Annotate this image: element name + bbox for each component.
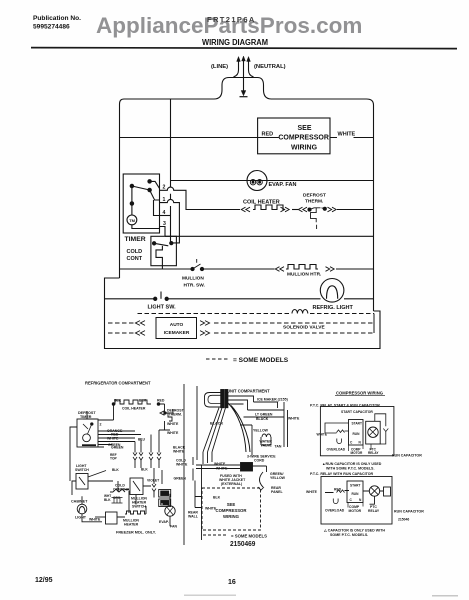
svg-text:YELLOW: YELLOW xyxy=(270,476,286,480)
svg-text:(EXTERNAL): (EXTERNAL) xyxy=(221,482,242,486)
svg-text:ICE MAKER (2155): ICE MAKER (2155) xyxy=(257,398,288,402)
svg-text:COIL HEATER: COIL HEATER xyxy=(122,407,146,411)
svg-text:SWITCH: SWITCH xyxy=(132,505,146,509)
svg-text:5995274486: 5995274486 xyxy=(33,24,70,31)
svg-text:VIOLET: VIOLET xyxy=(147,479,160,483)
svg-text:1: 1 xyxy=(161,486,163,490)
svg-text:SWITCH: SWITCH xyxy=(75,468,89,472)
svg-text:WITH SOME P.T.C. MODELS.: WITH SOME P.T.C. MODELS. xyxy=(326,466,374,470)
svg-text:COIL HEATER: COIL HEATER xyxy=(243,200,280,206)
svg-text:2150469: 2150469 xyxy=(230,539,255,548)
svg-text:RUN: RUN xyxy=(352,492,360,496)
svg-text:WHITE: WHITE xyxy=(205,507,217,511)
svg-text:OVERLOAD: OVERLOAD xyxy=(325,509,345,513)
svg-text:BLACK: BLACK xyxy=(256,417,269,421)
svg-text:RUN: RUN xyxy=(353,432,361,436)
svg-text:Publication No.: Publication No. xyxy=(33,15,81,22)
svg-text:N: N xyxy=(359,498,362,502)
svg-text:C: C xyxy=(350,498,353,502)
svg-text:RUN CAPACITOR: RUN CAPACITOR xyxy=(394,510,424,514)
svg-text:BLK: BLK xyxy=(141,468,148,472)
svg-text:WALL: WALL xyxy=(188,515,199,519)
svg-text:HEATER: HEATER xyxy=(124,523,139,527)
svg-text:(LINE): (LINE) xyxy=(211,64,228,70)
svg-text:CONTROL: CONTROL xyxy=(113,488,131,492)
svg-text:215046: 215046 xyxy=(398,518,409,522)
svg-text:START CAPACITOR: START CAPACITOR xyxy=(341,410,373,414)
svg-text:C: C xyxy=(350,441,353,445)
svg-text:COMPRESSOR WIRING: COMPRESSOR WIRING xyxy=(336,391,383,396)
svg-text:1: 1 xyxy=(163,197,166,203)
svg-text:WHITE: WHITE xyxy=(173,450,185,454)
svg-text:FREEZER MDL. ONLY.: FREEZER MDL. ONLY. xyxy=(116,531,156,535)
svg-text:START: START xyxy=(352,422,362,426)
svg-text:WHITE: WHITE xyxy=(167,431,179,435)
svg-text:N: N xyxy=(359,441,362,445)
svg-text:RED: RED xyxy=(334,488,342,492)
svg-text:SEE: SEE xyxy=(227,502,236,507)
svg-text:WIRING: WIRING xyxy=(223,514,240,519)
svg-text:CONT: CONT xyxy=(127,256,143,262)
svg-text:LIGHT: LIGHT xyxy=(75,516,87,520)
svg-text:SOME P.T.C. MODELS.: SOME P.T.C. MODELS. xyxy=(330,533,368,537)
svg-text:THERM.: THERM. xyxy=(305,199,323,205)
svg-text:SEE: SEE xyxy=(297,125,311,132)
svg-text:TAN: TAN xyxy=(275,445,282,449)
svg-text:FAN: FAN xyxy=(170,525,177,529)
svg-text:CORD: CORD xyxy=(254,459,265,463)
svg-text:THERM.: THERM. xyxy=(169,413,182,417)
svg-text:COMPRESSOR: COMPRESSOR xyxy=(215,508,247,513)
svg-text:= SOME MODELS: = SOME MODELS xyxy=(231,534,267,539)
svg-text:= SOME MODELS: = SOME MODELS xyxy=(233,357,289,364)
svg-text:WIRING: WIRING xyxy=(291,145,318,152)
svg-text:▲RUN CAPACITOR IS ONLY USED: ▲RUN CAPACITOR IS ONLY USED xyxy=(322,462,382,466)
svg-text:2: 2 xyxy=(163,185,166,191)
svg-text:△ CAPACITOR IS ONLY USED WITH: △ CAPACITOR IS ONLY USED WITH xyxy=(323,529,385,533)
svg-text:EVAP.: EVAP. xyxy=(159,520,169,524)
svg-text:HTR. SW.: HTR. SW. xyxy=(184,283,205,289)
svg-text:MOTOR: MOTOR xyxy=(351,451,364,455)
svg-text:TIMER: TIMER xyxy=(80,415,92,419)
svg-text:3: 3 xyxy=(163,221,166,227)
svg-text:ORG: ORG xyxy=(113,496,121,500)
svg-text:P.T.C. RELAY WITH RUN CAPACITO: P.T.C. RELAY WITH RUN CAPACITOR xyxy=(310,472,373,476)
svg-text:P.T.C. RELAY, START & RUN CAPA: P.T.C. RELAY, START & RUN CAPACITOR xyxy=(310,404,380,408)
svg-text:CABINET: CABINET xyxy=(71,500,88,504)
svg-text:RUN CAPACITOR: RUN CAPACITOR xyxy=(392,454,422,458)
svg-text:16: 16 xyxy=(228,579,236,586)
svg-text:WHITE: WHITE xyxy=(338,131,356,137)
svg-text:WHITE: WHITE xyxy=(167,422,179,426)
svg-text:REFRIGERATOR COMPARTMENT: REFRIGERATOR COMPARTMENT xyxy=(85,381,151,386)
svg-text:TIMER: TIMER xyxy=(125,236,146,243)
svg-text:MOTOR: MOTOR xyxy=(349,509,362,513)
svg-text:TM: TM xyxy=(129,218,135,223)
svg-text:FRT21P6A: FRT21P6A xyxy=(207,15,256,24)
svg-text:RELAY: RELAY xyxy=(368,451,379,455)
svg-text:TOP: TOP xyxy=(110,457,118,461)
svg-text:2: 2 xyxy=(100,423,102,427)
svg-text:REFRIG. LIGHT: REFRIG. LIGHT xyxy=(313,305,354,311)
svg-text:RED: RED xyxy=(262,131,274,137)
svg-text:OVERLOAD: OVERLOAD xyxy=(327,448,346,452)
svg-text:WIRING DIAGRAM: WIRING DIAGRAM xyxy=(202,37,268,47)
svg-text:WHITE: WHITE xyxy=(89,518,101,522)
svg-text:RELAY: RELAY xyxy=(368,509,380,513)
svg-text:PANEL: PANEL xyxy=(271,490,283,494)
svg-text:COMPRESSOR: COMPRESSOR xyxy=(278,135,329,142)
svg-text:DEFROST: DEFROST xyxy=(303,193,326,199)
svg-text:UNIT COMPARTMENT: UNIT COMPARTMENT xyxy=(227,389,270,394)
svg-text:AUTO: AUTO xyxy=(170,322,184,328)
svg-text:BLK: BLK xyxy=(139,399,147,403)
svg-text:BLK: BLK xyxy=(213,496,221,500)
svg-text:WHITE: WHITE xyxy=(176,463,188,467)
svg-text:START: START xyxy=(350,484,360,488)
svg-text:WHITE: WHITE xyxy=(306,490,318,494)
svg-text:MULLION HTR.: MULLION HTR. xyxy=(287,272,321,278)
svg-text:RED: RED xyxy=(157,399,165,403)
svg-text:(NEUTRAL): (NEUTRAL) xyxy=(254,64,286,70)
svg-text:BLK: BLK xyxy=(112,468,119,472)
svg-text:BLK: BLK xyxy=(114,399,122,403)
svg-text:WHITE: WHITE xyxy=(317,433,328,437)
svg-text:12/95: 12/95 xyxy=(35,577,53,584)
svg-text:MULLION: MULLION xyxy=(182,276,204,282)
svg-text:EVAP. FAN: EVAP. FAN xyxy=(269,182,297,188)
svg-text:LIGHT SW.: LIGHT SW. xyxy=(148,305,177,311)
svg-text:BLACK: BLACK xyxy=(210,422,224,426)
svg-text:ICEMAKER: ICEMAKER xyxy=(164,330,190,336)
svg-text:GREEN: GREEN xyxy=(111,445,124,449)
svg-text:YELLOW: YELLOW xyxy=(253,429,269,433)
svg-text:GREEN: GREEN xyxy=(174,476,187,480)
svg-text:WHITE: WHITE xyxy=(107,436,119,440)
svg-text:BLU: BLU xyxy=(138,438,146,442)
svg-text:COLD: COLD xyxy=(127,249,143,255)
svg-text:WHITE: WHITE xyxy=(216,466,228,470)
svg-text:BLK: BLK xyxy=(104,498,111,502)
svg-text:SOLENOID VALVE: SOLENOID VALVE xyxy=(283,325,325,331)
svg-text:4: 4 xyxy=(163,210,166,216)
svg-text:VALVE: VALVE xyxy=(261,444,273,448)
svg-text:WHITE: WHITE xyxy=(288,417,300,421)
